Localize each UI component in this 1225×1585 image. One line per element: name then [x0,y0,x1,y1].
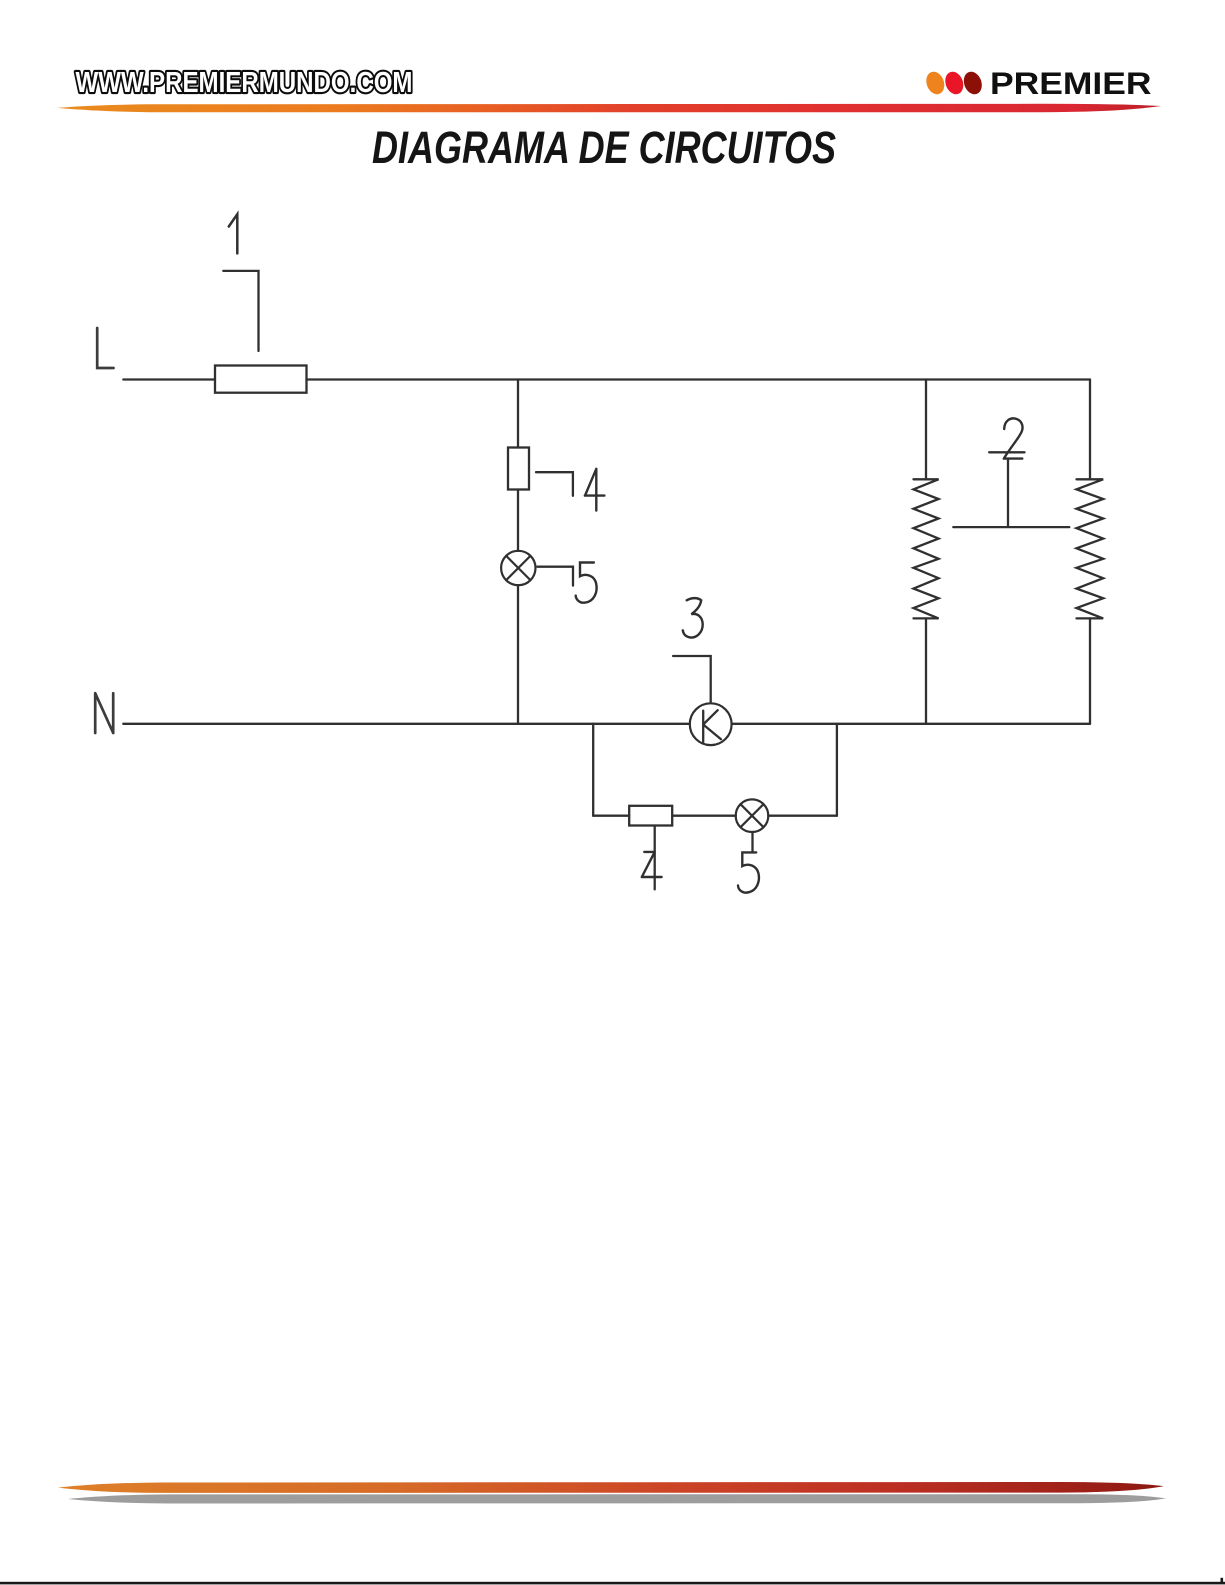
thermostat K letter [703,710,721,742]
switch 1 body [215,366,307,393]
wire lamp to N [517,585,519,724]
label 3 leader [673,656,711,702]
premier logo dot orange [923,69,947,97]
label 4 leader (upper) [536,472,573,496]
heater element 2 right bottom lead [1089,618,1091,723]
wire N right segment [732,723,1090,725]
label 2 leader [953,460,1069,528]
label 1 leader [223,271,258,351]
fuse 4 body (lower) [629,806,672,826]
label 5 leader (lower) [751,832,753,852]
heater element 2 right zigzag [1077,479,1104,618]
pilot lamp 5 (lower) [736,799,769,832]
label 3 digit [683,598,703,637]
top gradient divider bar [57,104,1161,113]
heater element 2 left top lead [925,380,927,480]
label 5 digit (upper) [576,563,597,603]
premier logo dot dark red [961,69,985,97]
wire lower loop right rise [836,724,838,816]
label 4 leader stem (lower) [654,826,656,890]
pilot lamp 5 (upper) [501,551,535,585]
wire lower loop left drop [592,724,594,816]
label 2 digit [1004,418,1023,458]
label 5 digit (lower) [738,852,759,892]
premier logo dot red [942,69,966,97]
thermostat K body [690,703,732,745]
wire fuse to lamp [517,490,519,551]
label 5 leader (upper) [538,567,574,586]
label 4 digit (lower) [642,852,662,877]
wire lamp branch drop [517,380,519,448]
wire lower branch left [593,815,629,817]
heater element 2 left bottom lead [925,618,927,723]
label 2 tick [989,451,1024,453]
svg-text:WWW.PREMIERMUNDO.COM: WWW.PREMIERMUNDO.COM [76,67,413,99]
page bottom border line [0,1582,1225,1585]
wire L left segment [123,378,215,380]
label 4 digit (upper) [585,469,605,511]
svg-text:PREMIER: PREMIER [990,65,1152,101]
wire lower branch right [768,815,837,817]
page border corner tick [1221,1578,1224,1583]
svg-text:DIAGRAMA DE CIRCUITOS: DIAGRAMA DE CIRCUITOS [372,122,836,173]
bottom gradient divider bar [58,1482,1164,1493]
fuse 4 body (vertical) [508,448,529,490]
terminal L letter [97,328,113,368]
wire L main segment [307,378,1091,380]
heater element 2 right top lead [1089,380,1091,480]
wire lower branch middle [672,815,736,817]
label 1 digit [229,214,238,253]
heater element 2 left zigzag [914,479,939,618]
wire N left segment [123,723,690,725]
bottom bar shadow [68,1494,1166,1503]
terminal N letter [95,693,113,733]
